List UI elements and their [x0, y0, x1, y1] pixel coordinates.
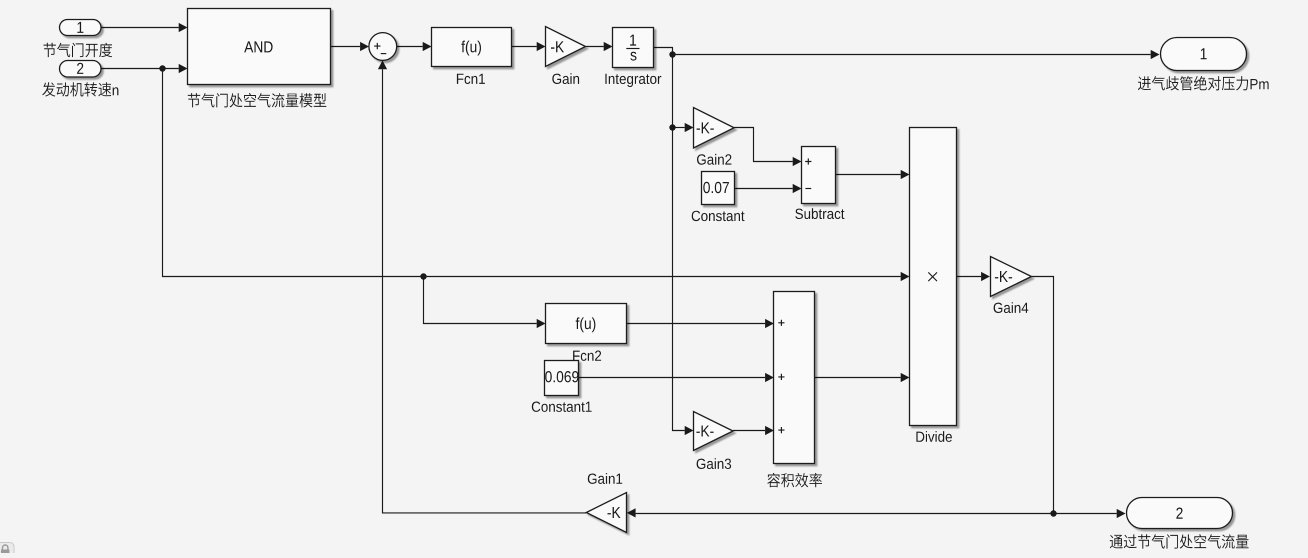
Divide label: [916, 431, 952, 442]
Divide block: [910, 128, 957, 426]
wire Fcn1 to Gain: [512, 42, 546, 51]
inport 1: [60, 20, 102, 36]
Gain3 label: [697, 458, 732, 469]
Gain label: [552, 73, 579, 84]
wire inport2 to AND: [101, 64, 188, 73]
Integrator block: [613, 28, 654, 68]
Constant label: [692, 211, 745, 221]
Subtract plus sign: [805, 158, 811, 164]
inport 2: [60, 61, 102, 78]
wire Gain to Integrator: [586, 42, 613, 51]
Gain1 label: [588, 473, 622, 484]
outport 2 label 通过节气门处空气流量: [1110, 534, 1249, 548]
Gain4 block: [991, 257, 1032, 297]
Gain4 label: [994, 302, 1029, 313]
outport 2: [1127, 498, 1233, 529]
wire inport1 to AND: [101, 23, 188, 32]
inport 1 label 节气门开度: [44, 43, 113, 58]
Gain2 block: [694, 108, 735, 149]
Fcn1 label: [457, 74, 485, 84]
Constant1 block: [545, 361, 579, 396]
junction engine-speed to Fcn2 branch: [420, 273, 426, 279]
junction feedback node: [1050, 510, 1056, 516]
volumetric efficiency sum block 容积效率: [774, 292, 815, 464]
subsystem block AND 节气门处空气流量模型: [188, 9, 331, 85]
wire volumetric sum to Divide: [815, 373, 910, 382]
volumetric sum plus 2: [778, 374, 784, 380]
wire Integrator down to Gain3: [654, 48, 694, 436]
wire Gain2 to Subtract plus: [734, 128, 801, 167]
sum block Sum: [369, 33, 397, 61]
AND block label 节气门处空气流量模型: [188, 93, 326, 107]
Subtract label: [795, 208, 844, 219]
outport 1 label 进气歧管绝对压力Pm: [1138, 76, 1269, 91]
Gain1 block: [586, 493, 626, 533]
Sum minus sign: [381, 53, 387, 55]
wire Constant1 to volumetric sum: [579, 373, 774, 382]
Fcn2 label: [573, 351, 601, 361]
Gain3 block: [694, 412, 734, 451]
wire Subtract to Divide: [836, 170, 910, 179]
Gain2 label: [697, 154, 731, 165]
wire feedback node to Gain1: [627, 508, 1054, 517]
wire Gain3 to volumetric sum: [733, 426, 774, 435]
wire Pm to outport1: [673, 50, 1160, 59]
volumetric sum plus 1: [778, 320, 784, 326]
Subtract block: [802, 147, 836, 204]
junction Pm node: [669, 51, 675, 57]
wire feedback node to outport2: [1054, 509, 1126, 518]
wire Sum to Fcn1: [397, 42, 432, 51]
wire branch to Gain2: [673, 123, 694, 132]
Constant block: [702, 172, 735, 205]
wire Fcn2 to volumetric sum: [627, 319, 774, 328]
junction Pm to Gain2 branch: [669, 124, 675, 130]
Gain block: [546, 27, 586, 67]
wire branch to Fcn2: [424, 277, 546, 329]
wire Divide to Gain4: [957, 272, 990, 281]
Integrator label: [605, 74, 661, 87]
wire Gain4 down to feedback node: [1031, 277, 1053, 514]
wire AND to Sum: [331, 42, 369, 51]
wire Gain1 to Sum bottom input: [378, 60, 586, 513]
Subtract minus sign: [805, 188, 811, 190]
Fcn2 block: [546, 304, 627, 344]
outport 1: [1161, 38, 1247, 71]
wire Constant to Subtract minus: [735, 184, 802, 193]
volumetric sum plus 3: [778, 427, 784, 433]
lock badge: [0, 543, 14, 558]
Fcn1 block: [432, 28, 512, 67]
volumetric sum label 容积效率: [767, 473, 822, 488]
Sum plus sign: [374, 43, 380, 49]
junction engine-speed node: [159, 65, 165, 71]
inport 2 label 发动机转速n: [42, 82, 118, 96]
Divide multiply sign: [928, 272, 937, 281]
Constant1 label: [532, 402, 592, 412]
wire engine-speed to Divide: [163, 69, 910, 282]
